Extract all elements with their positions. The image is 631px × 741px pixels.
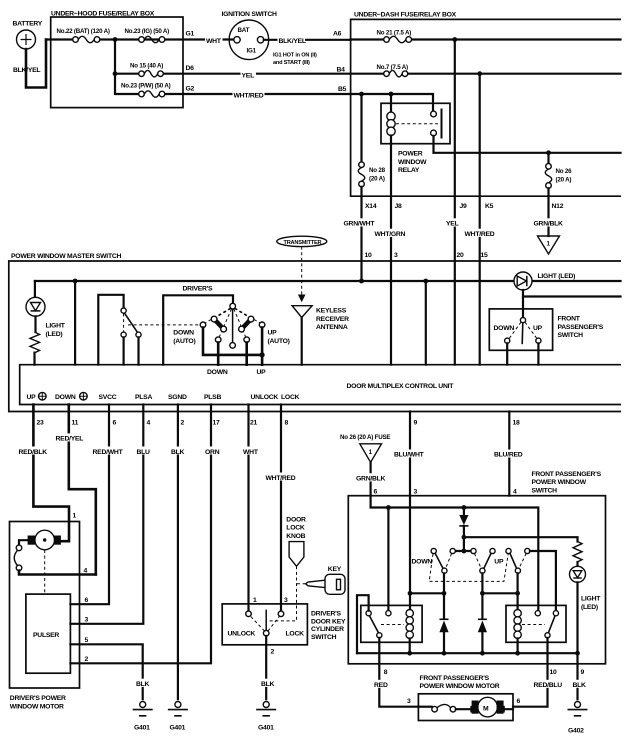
wire N12 GRN/BLK down to connector triangle xyxy=(533,196,569,236)
svg-text:POWER WINDOW MOTOR: POWER WINDOW MOTOR xyxy=(420,683,500,690)
svg-text:4: 4 xyxy=(147,420,151,427)
svg-text:B5: B5 xyxy=(338,86,347,93)
svg-text:DRIVER'S POWER: DRIVER'S POWER xyxy=(10,695,66,702)
svg-text:2: 2 xyxy=(271,648,275,655)
svg-text:CYLINDER: CYLINDER xyxy=(311,626,344,633)
svg-text:BAT: BAT xyxy=(238,27,250,34)
svg-text:UP: UP xyxy=(494,558,504,565)
svg-text:WHT: WHT xyxy=(206,38,222,45)
dashed link knob to key switch xyxy=(268,566,297,621)
driver's power window motor box xyxy=(10,522,80,711)
svg-text:LOCK: LOCK xyxy=(286,525,305,532)
svg-text:SWITCH: SWITCH xyxy=(311,634,337,641)
svg-text:B4: B4 xyxy=(337,66,346,73)
svg-text:WHT/RED: WHT/RED xyxy=(234,93,264,100)
svg-text:6: 6 xyxy=(374,489,378,496)
wire battery BLK/YEL to under-hood box xyxy=(13,40,46,88)
svg-text:G402: G402 xyxy=(568,728,584,735)
svg-text:RED/WHT: RED/WHT xyxy=(93,449,124,456)
wire GRN/BLK triangle to passenger box pin 6 xyxy=(355,462,391,495)
right relay coil xyxy=(514,610,521,639)
junction node row1/row2 feed xyxy=(113,37,118,42)
wire J8 WHT/GRN down to control unit xyxy=(374,144,412,365)
svg-text:FRONT PASSENGER'S: FRONT PASSENGER'S xyxy=(420,675,490,682)
svg-text:10: 10 xyxy=(365,252,373,259)
node common feed on contact row xyxy=(462,549,467,554)
fuse No.23 (P/W) (50 A) xyxy=(121,83,171,98)
label WHT/RED on G2 wire xyxy=(233,90,265,100)
wire relay output row xyxy=(434,136,621,153)
wire motor left brush to breaker xyxy=(19,540,28,545)
power window relay box xyxy=(381,103,450,174)
fuse No 21 (7.5 A) xyxy=(377,29,412,42)
wire pulser pin3 to PLSA BLU xyxy=(70,405,151,624)
wire auto-rail to control unit xyxy=(261,355,264,365)
svg-text:DOOR MULTIPLEX CONTROL UNIT: DOOR MULTIPLEX CONTROL UNIT xyxy=(347,383,455,390)
passenger rotary blades xyxy=(435,553,517,569)
wire D6 row xyxy=(115,73,351,75)
node DOWN output xyxy=(442,591,447,596)
svg-text:BLU/RED: BLU/RED xyxy=(494,452,523,459)
resistor below LED xyxy=(30,316,40,364)
wire B4 row xyxy=(351,73,621,75)
LED light (passenger switch illumination) xyxy=(570,562,602,653)
node diode D3/ground rail xyxy=(480,651,485,656)
svg-text:17: 17 xyxy=(213,420,221,427)
svg-text:RELAY: RELAY xyxy=(398,167,420,174)
wire coil rail left branch xyxy=(410,592,444,594)
svg-text:WHT/RED: WHT/RED xyxy=(266,475,296,482)
wire pin18 BLU/RED down to passenger box xyxy=(493,412,528,496)
svg-text:DOWN: DOWN xyxy=(412,558,433,565)
svg-text:G401: G401 xyxy=(258,725,274,732)
under-dash fuse/relay box (open right) xyxy=(351,12,621,197)
node bus tap to control unit xyxy=(423,279,428,284)
svg-text:DOWN: DOWN xyxy=(55,394,76,401)
svg-text:UNLOCK: UNLOCK xyxy=(228,631,256,638)
svg-text:RED/BLK: RED/BLK xyxy=(19,449,48,456)
wire right coil to ground rail xyxy=(516,639,518,654)
svg-text:LOCK: LOCK xyxy=(286,631,305,638)
svg-text:WINDOW MOTOR: WINDOW MOTOR xyxy=(10,703,64,710)
driver rotary contact UP xyxy=(244,337,250,343)
svg-text:6: 6 xyxy=(113,420,117,427)
power window master switch box (open right) xyxy=(9,253,621,412)
transmitter xyxy=(277,236,327,246)
svg-text:(20 A): (20 A) xyxy=(556,176,572,183)
svg-text:(LED): (LED) xyxy=(46,331,63,338)
key switch common xyxy=(228,610,305,638)
svg-text:21: 21 xyxy=(250,420,258,427)
wire master power bus xyxy=(35,280,621,282)
svg-text:23: 23 xyxy=(37,420,45,427)
svg-text:POWER WINDOW MASTER SWITCH: POWER WINDOW MASTER SWITCH xyxy=(11,253,122,260)
svg-text:No.7 (7.5 A): No.7 (7.5 A) xyxy=(377,64,409,71)
fuse No.22 (BAT) (120 A) xyxy=(57,28,110,43)
wire feed down to rows 2,3 xyxy=(115,40,139,95)
circuit breaker (motor) xyxy=(14,545,22,571)
front passenger's switch box xyxy=(489,309,603,350)
node auto-rail junction xyxy=(260,352,265,357)
driver rotary contact DOWN(AUTO) xyxy=(200,322,206,328)
wire J9 YEL down to control unit xyxy=(445,40,464,365)
node rail/diode top xyxy=(462,505,467,510)
ground G401 (key switch) xyxy=(256,702,276,732)
wire pin8 WHT/RED to key cylinder xyxy=(265,405,299,612)
svg-text:M: M xyxy=(483,706,489,713)
svg-text:15: 15 xyxy=(481,252,489,259)
svg-text:9: 9 xyxy=(581,669,585,676)
wire pin2 SGND BLK to ground xyxy=(170,405,186,700)
resistor (passenger LED) xyxy=(573,542,582,562)
svg-text:DOWN: DOWN xyxy=(494,325,515,332)
svg-text:3: 3 xyxy=(407,698,411,705)
wire left relay NC tie around box xyxy=(357,595,369,653)
wire pulser pin2 to PLSB ORN xyxy=(70,405,222,664)
fuse No.23 (IG) (50 A) xyxy=(125,28,170,43)
wire pin23 RED/BLK to motor pin 1 xyxy=(18,405,70,542)
svg-text:PASSENGER'S: PASSENGER'S xyxy=(558,324,604,331)
passenger switch blade xyxy=(521,323,524,345)
wire left relay contact feed xyxy=(387,508,389,611)
svg-text:SGND: SGND xyxy=(168,394,187,401)
svg-text:TRANSMITTER: TRANSMITTER xyxy=(284,240,322,246)
svg-text:G401: G401 xyxy=(134,725,150,732)
svg-text:UP: UP xyxy=(533,325,543,332)
svg-text:YEL: YEL xyxy=(446,221,459,228)
svg-text:UP: UP xyxy=(257,369,267,376)
svg-text:ORN: ORN xyxy=(205,449,220,456)
driver rotary contact DOWN xyxy=(215,337,221,343)
svg-text:BLU/WHT: BLU/WHT xyxy=(394,452,425,459)
node A6/J9 junction xyxy=(452,37,457,42)
svg-text:KEYLESS: KEYLESS xyxy=(316,308,347,315)
wire X14 GRN/WHT down to master bus xyxy=(343,196,380,281)
wire left coil to ground rail xyxy=(409,639,411,654)
driver rotary contact center xyxy=(230,343,236,349)
wires lock switch to control unit xyxy=(124,337,139,364)
driver rotary dashed fan xyxy=(205,308,260,338)
driver rotary wiper xyxy=(232,309,234,343)
node rail/left relay contact feed xyxy=(386,505,391,510)
fuse No 28 (20 A) X14 branch xyxy=(358,94,385,196)
svg-text:2: 2 xyxy=(85,656,89,663)
svg-text:2: 2 xyxy=(181,420,185,427)
svg-text:WHT/RED: WHT/RED xyxy=(465,231,495,238)
node diode D2/ground rail xyxy=(442,651,447,656)
svg-text:10: 10 xyxy=(550,669,558,676)
svg-text:PULSER: PULSER xyxy=(33,632,59,639)
svg-text:LIGHT (LED): LIGHT (LED) xyxy=(538,273,576,280)
node right coil/ground rail xyxy=(515,651,520,656)
svg-text:KNOB: KNOB xyxy=(286,533,305,540)
svg-text:BLU: BLU xyxy=(137,449,151,456)
front passenger's power window switch box xyxy=(348,471,605,664)
wire auto-rail xyxy=(203,328,262,355)
wire pulser pin5 BLK to ground xyxy=(70,637,151,699)
svg-text:4: 4 xyxy=(513,489,517,496)
svg-text:9: 9 xyxy=(414,420,418,427)
svg-text:KEY: KEY xyxy=(328,566,342,573)
node rail2/diode xyxy=(462,535,467,540)
svg-text:DRIVER'S: DRIVER'S xyxy=(311,611,342,618)
motor M2 passenger window xyxy=(456,697,513,717)
passenger switch common xyxy=(520,318,525,323)
svg-text:No 21 (7.5 A): No 21 (7.5 A) xyxy=(377,29,412,36)
wire ignition IG1 to A6 xyxy=(264,39,351,41)
LED light (passenger side indicator in master) xyxy=(514,272,575,290)
wire pin 8 RED from left relay blade xyxy=(373,638,418,707)
LED light (master switch illumination) xyxy=(26,281,66,338)
diode D2 xyxy=(439,619,448,632)
svg-text:IG1: IG1 xyxy=(247,47,257,54)
wire pulser pin6 to SVCC RED/WHT xyxy=(70,405,126,605)
node bus/LED branch xyxy=(73,279,78,284)
svg-text:WHT: WHT xyxy=(243,449,259,456)
svg-text:FRONT PASSENGER'S: FRONT PASSENGER'S xyxy=(532,471,602,478)
svg-text:IGNITION SWITCH: IGNITION SWITCH xyxy=(222,11,277,18)
wire power rail (top) in passenger box xyxy=(371,496,539,611)
svg-text:No 28: No 28 xyxy=(369,167,386,174)
svg-text:BLK/YEL: BLK/YEL xyxy=(13,67,40,74)
svg-text:3: 3 xyxy=(85,616,89,623)
wire contact row common segment xyxy=(455,550,471,552)
node UP output xyxy=(480,591,485,596)
svg-text:J9: J9 xyxy=(460,203,468,210)
svg-text:No 15 (40 A): No 15 (40 A) xyxy=(130,63,163,70)
svg-text:1: 1 xyxy=(253,597,257,604)
node LED/ground rail xyxy=(575,651,580,656)
fuse No 26 (20 A) N12 branch xyxy=(545,153,572,196)
svg-text:No.22 (BAT) (120 A): No.22 (BAT) (120 A) xyxy=(57,28,110,35)
node bus/pin10 xyxy=(359,279,364,284)
node relay-output/No26 junction xyxy=(546,150,551,155)
window lock switch bracket xyxy=(98,295,123,365)
note IG1 HOT xyxy=(273,53,317,66)
label WHT on G1 wire xyxy=(205,36,223,46)
wires passenger switch to control unit xyxy=(507,343,538,364)
key xyxy=(297,566,345,595)
wire G1 row xyxy=(46,38,234,40)
svg-text:RECEIVER: RECEIVER xyxy=(316,316,349,323)
svg-text:RED: RED xyxy=(374,682,388,689)
svg-text:BLK: BLK xyxy=(573,682,587,689)
svg-text:SVCC: SVCC xyxy=(99,394,117,401)
svg-text:18: 18 xyxy=(513,420,521,427)
wire branch to right edge xyxy=(523,295,621,297)
dashed linkage trapezoid xyxy=(429,554,508,581)
node B5/X14 junction xyxy=(359,92,364,97)
svg-text:WINDOW: WINDOW xyxy=(398,159,427,166)
relay coil (J8 side) xyxy=(387,94,395,144)
ignition terminal IG1 xyxy=(257,37,263,43)
motor M1 driver's window xyxy=(28,530,61,550)
keyless receiver antenna xyxy=(292,306,349,365)
driver rotary blade DOWN(AUTO) xyxy=(211,316,226,332)
diode D1 (feed) xyxy=(459,508,468,549)
svg-text:FRONT: FRONT xyxy=(558,316,581,323)
svg-text:G401: G401 xyxy=(170,725,186,732)
wire rotary top to right relay second contact xyxy=(530,551,556,611)
wire ground rail xyxy=(357,652,578,654)
svg-text:PLSB: PLSB xyxy=(204,394,221,401)
driver's switch bracket xyxy=(163,285,233,364)
pulser box xyxy=(26,594,71,673)
control unit pin labels xyxy=(27,392,300,401)
svg-text:SWITCH: SWITCH xyxy=(532,487,558,494)
ground G402 xyxy=(568,702,588,735)
right relay contacts xyxy=(522,611,559,638)
svg-text:UNDER−HOOD FUSE/RELAY BOX: UNDER−HOOD FUSE/RELAY BOX xyxy=(51,10,155,17)
svg-text:20: 20 xyxy=(457,252,465,259)
svg-text:ANTENNA: ANTENNA xyxy=(316,324,348,331)
left relay box xyxy=(361,605,422,642)
svg-text:11: 11 xyxy=(72,420,79,427)
svg-text:J8: J8 xyxy=(395,203,403,210)
label UP (AUTO) xyxy=(268,330,290,345)
passenger rotary contacts row xyxy=(431,548,530,553)
wire bus branch down to control unit xyxy=(74,281,76,365)
svg-text:GRN/BLK: GRN/BLK xyxy=(534,221,564,228)
svg-text:6: 6 xyxy=(85,597,89,604)
svg-text:LIGHT: LIGHT xyxy=(581,596,601,603)
wire UP contact to control unit xyxy=(245,343,248,365)
svg-text:RED/YEL: RED/YEL xyxy=(56,436,84,443)
svg-text:DRIVER'S: DRIVER'S xyxy=(183,285,214,292)
svg-text:3: 3 xyxy=(284,597,288,604)
window lock switch xyxy=(121,308,141,337)
battery B1 xyxy=(13,21,43,50)
wire rail 2 to LED branch xyxy=(464,537,578,541)
svg-text:GRN/BLK: GRN/BLK xyxy=(356,476,386,483)
svg-text:No 26 (20 A) FUSE: No 26 (20 A) FUSE xyxy=(340,434,390,441)
left relay coil xyxy=(406,610,413,639)
fuse No 15 (40 A) xyxy=(130,63,163,77)
wire right coil feed xyxy=(516,573,518,609)
svg-text:(AUTO): (AUTO) xyxy=(268,338,290,345)
svg-text:BLK: BLK xyxy=(136,681,150,688)
svg-text:6: 6 xyxy=(517,698,521,705)
svg-text:8: 8 xyxy=(285,420,289,427)
svg-text:3: 3 xyxy=(414,489,418,496)
svg-text:5: 5 xyxy=(85,637,89,644)
wire pin11 RED/YEL to motor pin 4 xyxy=(55,405,96,575)
svg-text:PLSA: PLSA xyxy=(135,394,152,401)
svg-text:(AUTO): (AUTO) xyxy=(173,338,195,345)
driver rotary contact UP(AUTO) xyxy=(259,322,265,328)
svg-text:K5: K5 xyxy=(485,203,494,210)
left relay contacts xyxy=(366,611,404,638)
wire bus tap down xyxy=(425,281,427,365)
driver rotary common xyxy=(230,303,236,309)
svg-text:RED/BLU: RED/BLU xyxy=(534,682,563,689)
svg-text:8: 8 xyxy=(384,669,388,676)
svg-text:G2: G2 xyxy=(186,85,195,92)
wire pin 9 BLK to ground xyxy=(572,653,589,699)
wire breaker to pin 4 riser xyxy=(19,571,96,575)
svg-text:UP: UP xyxy=(27,394,37,401)
svg-text:POWER WINDOW: POWER WINDOW xyxy=(532,479,587,486)
svg-text:LIGHT: LIGHT xyxy=(46,323,66,330)
passenger rotary moving contacts xyxy=(442,568,521,573)
node coil rail left xyxy=(408,591,413,596)
svg-text:No.23 (IG) (50 A): No.23 (IG) (50 A) xyxy=(125,28,170,35)
wire pin3 feed to coil rail xyxy=(409,496,411,610)
wire pin21 WHT to key cylinder xyxy=(242,405,261,612)
label YEL on D6 wire xyxy=(241,70,257,80)
svg-text:WHT/GRN: WHT/GRN xyxy=(375,231,406,238)
svg-text:N12: N12 xyxy=(552,203,564,210)
driver's door key cylinder switch box xyxy=(222,604,346,645)
node B5/relay-coil junction xyxy=(389,92,394,97)
svg-text:DOOR KEY: DOOR KEY xyxy=(311,618,346,625)
svg-text:DOWN: DOWN xyxy=(173,330,194,337)
svg-text:YEL: YEL xyxy=(242,72,255,79)
relay linkage dashed xyxy=(396,123,438,125)
wire K5 WHT/RED down to control unit xyxy=(464,74,501,365)
svg-text:POWER: POWER xyxy=(398,151,423,158)
svg-text:BLK/YEL: BLK/YEL xyxy=(279,38,306,45)
svg-text:UNLOCK: UNLOCK xyxy=(251,394,279,401)
svg-text:BLK: BLK xyxy=(261,681,275,688)
svg-text:A6: A6 xyxy=(333,31,342,38)
wire DOWN output through diode to ground rail xyxy=(443,573,445,653)
wire LED down to passenger switch common xyxy=(522,290,524,318)
label BLK/YEL on wire xyxy=(278,36,306,46)
node coil rail right xyxy=(515,591,520,596)
under-hood fuse/relay box xyxy=(51,10,183,107)
svg-text:X14: X14 xyxy=(365,203,377,210)
svg-text:(LED): (LED) xyxy=(581,604,598,611)
svg-text:LOCK: LOCK xyxy=(281,394,300,401)
node B4/K5 junction xyxy=(477,71,482,76)
wire pin 10 RED/BLU from right relay blade xyxy=(513,638,564,707)
right relay box xyxy=(506,605,566,642)
svg-text:G1: G1 xyxy=(186,31,195,38)
svg-text:UNDER−DASH FUSE/RELAY BOX: UNDER−DASH FUSE/RELAY BOX xyxy=(354,12,457,19)
wire B5 row to relay xyxy=(351,94,433,111)
ground G401 (pulser) xyxy=(133,702,153,732)
wire pin9 BLU/WHT down to passenger box xyxy=(393,412,428,496)
passenger switch contacts xyxy=(494,322,543,343)
svg-text:1: 1 xyxy=(73,513,77,520)
key switch terminal 1 xyxy=(246,597,257,617)
dashed link motor to pulser xyxy=(44,550,46,594)
ignition switch xyxy=(222,11,277,60)
front passenger's power window motor box xyxy=(418,675,513,721)
svg-text:SWITCH: SWITCH xyxy=(558,332,584,339)
svg-text:No 26: No 26 xyxy=(556,168,573,175)
label DOWN (AUTO) xyxy=(173,330,195,345)
driver rotary blade UP(AUTO) xyxy=(239,316,254,332)
dashed linkage lock switch to driver rotary xyxy=(128,324,200,326)
connector triangle 1 (to passenger switch) xyxy=(360,444,382,463)
fuse No.7 (7.5 A) xyxy=(377,64,409,77)
node left coil/ground rail xyxy=(407,651,412,656)
svg-text:BATTERY: BATTERY xyxy=(13,21,43,28)
ground G401 (SGND) xyxy=(168,702,188,732)
svg-text:UP: UP xyxy=(268,330,278,337)
wire G2 row xyxy=(163,93,350,95)
svg-text:BLK: BLK xyxy=(171,449,185,456)
door multiplex control unit box (open right) xyxy=(20,365,621,405)
dashed wire transmitter to antenna xyxy=(301,247,303,295)
wire coil rail right xyxy=(482,592,517,594)
wire DOWN contact to control unit xyxy=(217,343,220,365)
svg-text:IG1 HOT in ON (II): IG1 HOT in ON (II) xyxy=(273,53,317,59)
relay contact xyxy=(431,109,442,139)
wire UP output to coil rail right xyxy=(481,573,483,653)
